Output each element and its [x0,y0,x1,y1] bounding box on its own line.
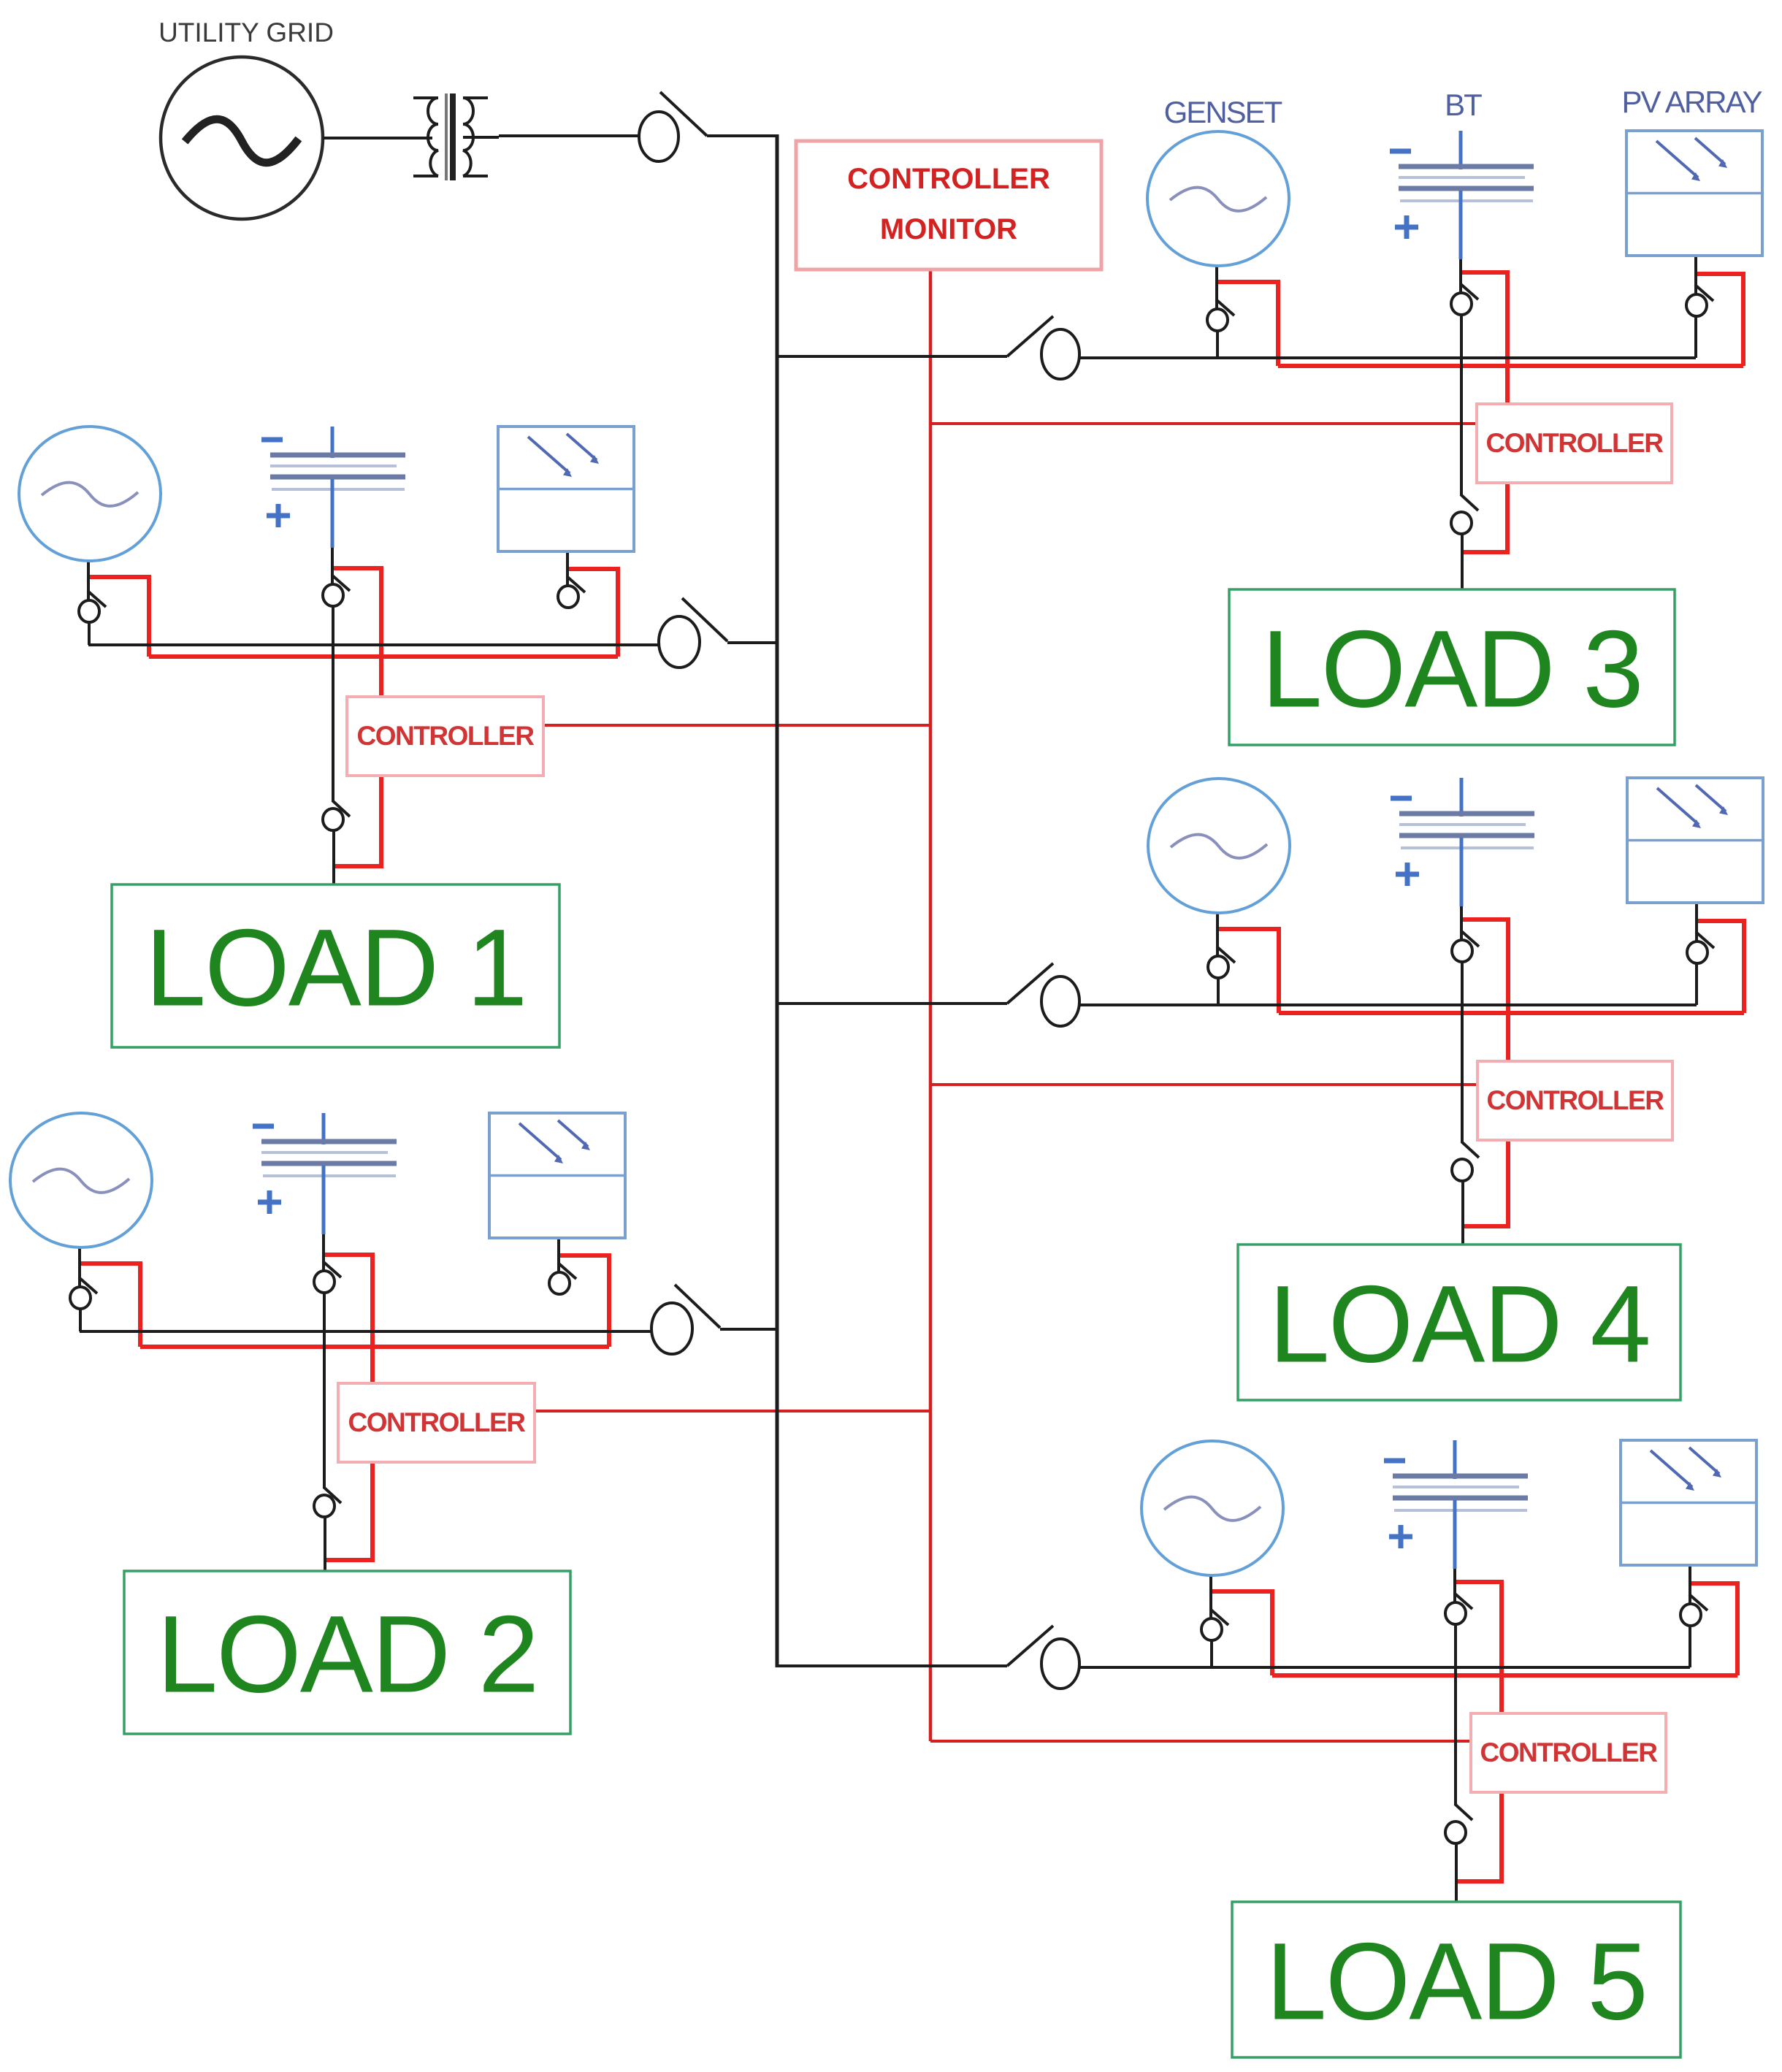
svg-text:CONTROLLER: CONTROLLER [1486,428,1664,458]
svg-text:LOAD 5: LOAD 5 [1266,1920,1647,2043]
svg-text:CONTROLLER: CONTROLLER [847,163,1050,195]
svg-text:CONTROLLER: CONTROLLER [1487,1085,1664,1115]
svg-text:MONITOR: MONITOR [880,213,1017,245]
svg-text:LOAD 2: LOAD 2 [157,1593,538,1716]
svg-text:GENSET: GENSET [1164,95,1282,129]
svg-text:CONTROLLER: CONTROLLER [348,1407,526,1437]
svg-text:CONTROLLER: CONTROLLER [357,721,535,751]
svg-text:PV ARRAY: PV ARRAY [1622,85,1763,119]
svg-text:BT: BT [1445,88,1482,122]
svg-text:UTILITY GRID: UTILITY GRID [158,18,334,47]
svg-text:LOAD 1: LOAD 1 [145,906,527,1029]
svg-text:CONTROLLER: CONTROLLER [1480,1738,1658,1767]
svg-text:LOAD 4: LOAD 4 [1269,1263,1650,1385]
svg-text:LOAD 3: LOAD 3 [1261,608,1643,730]
